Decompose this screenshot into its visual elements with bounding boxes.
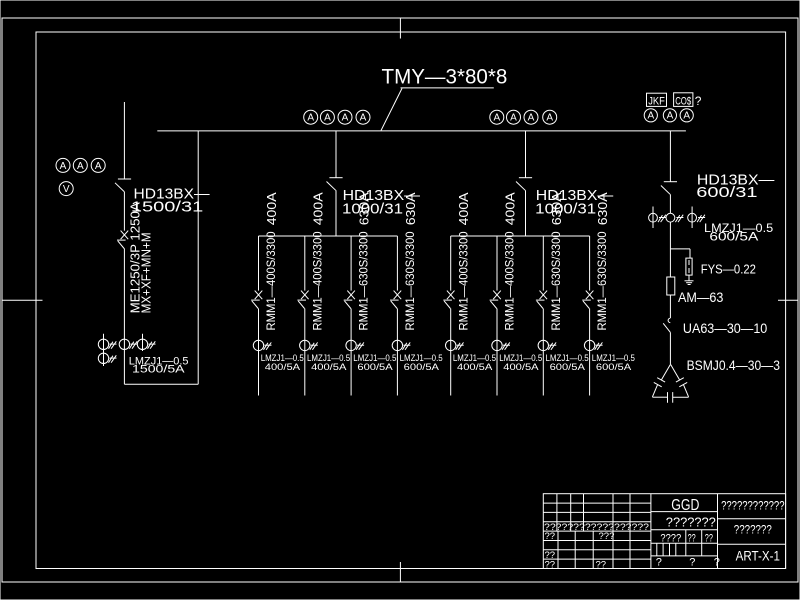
centre section rows xyxy=(651,511,718,513)
current transformer right b (on line) xyxy=(666,213,675,222)
isolator switch HD13BX-1500/31 xyxy=(118,178,131,180)
svg-text:?: ? xyxy=(695,94,702,108)
boxed glyph label 2 (COS) xyxy=(674,93,693,107)
svg-text:????????????: ???????????? xyxy=(721,501,784,513)
top centering mark xyxy=(399,18,401,39)
svg-text:400/5A: 400/5A xyxy=(457,362,493,373)
capacitor plates right side xyxy=(676,378,684,382)
arrester internal lead bottom xyxy=(688,268,690,273)
svg-text:RMM1—630S/3300: RMM1—630S/3300 xyxy=(357,231,371,330)
svg-text:A: A xyxy=(546,113,553,124)
wire between switch and breaker xyxy=(123,192,125,231)
wire busbar drop / cubicle box right edge xyxy=(197,131,199,384)
wire feeder 2 lower xyxy=(304,309,306,396)
capacitor bottom wire left xyxy=(652,396,667,398)
svg-text:BSMJ0.4—30—3: BSMJ0.4—30—3 xyxy=(687,358,780,373)
svg-text:A: A xyxy=(60,161,67,172)
svg-text:??: ?? xyxy=(596,560,607,571)
svg-text:?: ? xyxy=(689,557,695,569)
left centering mark xyxy=(2,299,43,301)
wire UA63 to capacitor xyxy=(669,332,671,364)
ammeter A at x=531.0 xyxy=(524,110,538,124)
wire feeder 7 upper xyxy=(542,236,544,291)
svg-text:???????: ??????? xyxy=(666,515,716,530)
current transformer LMZJ1 d xyxy=(98,353,108,363)
svg-text:1000/31: 1000/31 xyxy=(342,200,403,217)
svg-text:RMM1—400S/3300: RMM1—400S/3300 xyxy=(310,231,324,330)
svg-text:??????????????????: ?????????????????? xyxy=(544,522,649,533)
group 2 distribution wire xyxy=(451,235,590,237)
moulded case breaker RMM1 feeder 2 xyxy=(301,291,309,300)
capacitor bottom wire right xyxy=(673,396,689,398)
wire feeder 2 upper xyxy=(304,236,306,291)
CT secondary stub left xyxy=(103,334,105,366)
ammeter PA1 xyxy=(56,158,70,172)
moulded case breaker RMM1 feeder 8 xyxy=(586,291,594,300)
current transformer feeder 5 xyxy=(446,340,456,350)
CT stub right (right section) xyxy=(691,207,693,229)
wire branch horizontal xyxy=(670,248,690,250)
svg-text:????: ???? xyxy=(660,533,681,545)
CT stub left (right section) xyxy=(652,207,654,229)
title block divider 2 xyxy=(717,494,719,569)
left grid verticals upper xyxy=(556,494,558,531)
current transformer feeder 3 xyxy=(346,340,356,350)
moulded case breaker RMM1 feeder 3 xyxy=(347,291,355,300)
svg-text:600/5A: 600/5A xyxy=(404,362,440,373)
wire busbar drop group 2 head HD13BX-1000/31 xyxy=(525,131,527,178)
svg-text:600/5A: 600/5A xyxy=(550,362,586,373)
svg-text:UA63—30—10: UA63—30—10 xyxy=(683,321,767,336)
svg-text:630A: 630A xyxy=(358,192,372,226)
wire incomer lower / cubicle box left edge xyxy=(123,248,125,384)
svg-text:?: ? xyxy=(714,557,720,569)
svg-text:TMY—3*80*8: TMY—3*80*8 xyxy=(382,66,508,89)
current transformer feeder 2 xyxy=(300,340,310,350)
svg-text:V: V xyxy=(63,184,70,195)
svg-text:A: A xyxy=(307,113,314,124)
svg-text:RMM1—400S/3300: RMM1—400S/3300 xyxy=(503,231,517,330)
svg-text:400A: 400A xyxy=(504,192,518,226)
wire feeder 5 lower xyxy=(450,309,452,396)
right column rows xyxy=(718,518,786,520)
svg-text:A: A xyxy=(342,113,349,124)
circuit breaker ME1250/3P xyxy=(121,231,129,240)
ammeter A at x=669.9 xyxy=(663,109,676,122)
busbar TMY horizontal wire xyxy=(157,130,686,132)
current transformer feeder 6 xyxy=(492,340,502,350)
centre divider a xyxy=(685,530,687,556)
svg-text:A: A xyxy=(667,111,674,122)
svg-text:600/5A: 600/5A xyxy=(709,229,758,243)
svg-text:A: A xyxy=(510,113,517,124)
svg-text:??: ?? xyxy=(545,560,556,571)
wire feeder 6 lower xyxy=(496,309,498,396)
svg-text:RMM1—400S/3300: RMM1—400S/3300 xyxy=(456,231,470,330)
wire feeder 3 upper xyxy=(350,236,352,291)
ammeter A at x=549.7 xyxy=(543,110,557,124)
wire feeder 5 upper xyxy=(450,236,452,291)
wire branch vertical xyxy=(689,249,691,258)
boxed glyph label 1 (incoming) xyxy=(647,93,667,106)
svg-text:A: A xyxy=(528,113,535,124)
capacitor plates left side xyxy=(657,378,665,382)
svg-text:RMM1—630S/3300: RMM1—630S/3300 xyxy=(549,231,563,330)
svg-text:630A: 630A xyxy=(550,192,564,226)
current transformer right c xyxy=(688,213,697,222)
moulded case breaker RMM1 feeder 5 xyxy=(447,291,455,300)
current transformer feeder 8 xyxy=(584,340,594,350)
svg-text:??: ?? xyxy=(705,533,713,545)
wire feeder 4 lower xyxy=(396,309,398,396)
isolator switch group 1 head HD13BX-1000/31 xyxy=(329,177,342,179)
ammeter A at x=363.0 xyxy=(356,110,370,124)
svg-text:???????: ??????? xyxy=(734,524,772,536)
wire feeder 1 upper xyxy=(258,236,260,291)
svg-text:FYS—0.22: FYS—0.22 xyxy=(701,262,756,277)
cubicle box bottom edge xyxy=(124,383,198,385)
svg-text:RMM1—630S/3300: RMM1—630S/3300 xyxy=(403,231,417,330)
svg-text:A: A xyxy=(683,111,690,122)
ammeter PA3 xyxy=(91,158,105,172)
svg-text:A: A xyxy=(360,113,367,124)
isolator switch group 2 head HD13BX-1000/31 xyxy=(519,177,532,179)
current transformer feeder 1 xyxy=(253,340,263,350)
CT secondary stub right xyxy=(142,334,144,351)
ammeter A at x=345.0 xyxy=(338,110,352,124)
svg-text:400/5A: 400/5A xyxy=(311,362,347,373)
svg-text:A: A xyxy=(324,113,331,124)
capacitor plate bottom left xyxy=(667,392,669,403)
svg-text:???: ??? xyxy=(599,531,615,542)
svg-text:RMM1—400S/3300: RMM1—400S/3300 xyxy=(264,231,278,330)
svg-text:AM—63: AM—63 xyxy=(678,290,723,305)
svg-text:400A: 400A xyxy=(265,192,279,226)
isolator switch HD13BX-600/31 xyxy=(664,181,677,183)
fuse/arrester body FYS-0.22 xyxy=(686,258,692,275)
capacitor bank BSMJ0.4-30-3 (delta) xyxy=(661,364,670,380)
svg-text:400A: 400A xyxy=(311,192,325,226)
wire feeder 8 upper xyxy=(589,236,591,291)
current transformer LMZJ1 c xyxy=(137,339,147,349)
bottom centering mark xyxy=(399,562,401,582)
wire AM fuse to UA63 switch xyxy=(669,295,671,318)
ammeter A at x=650.8 xyxy=(644,109,657,122)
wire feeder 8 lower xyxy=(589,309,591,396)
wire busbar drop group 1 head HD13BX-1000/31 xyxy=(335,131,337,178)
busbar label leader xyxy=(381,88,402,130)
svg-text:ART-X-1: ART-X-1 xyxy=(736,549,780,564)
moulded case breaker RMM1 feeder 1 xyxy=(255,291,263,300)
right centering mark xyxy=(778,299,798,301)
svg-text:630A: 630A xyxy=(404,192,418,226)
svg-text:??: ?? xyxy=(688,533,696,545)
wire CT row to AM fuse xyxy=(669,222,671,277)
moulded case breaker RMM1 feeder 6 xyxy=(493,291,501,300)
wire feeder 7 lower xyxy=(542,309,544,396)
current transformer LMZJ1 b (on line) xyxy=(119,339,129,349)
svg-text:600/5A: 600/5A xyxy=(357,362,393,373)
arrester internal lead top xyxy=(688,260,690,265)
title block divider 1 xyxy=(650,494,652,569)
ammeter A at x=496.8 xyxy=(490,110,504,124)
svg-text:A: A xyxy=(77,161,84,172)
wire feeder 4 upper xyxy=(396,236,398,291)
svg-text:MX+XF+MN+M: MX+XF+MN+M xyxy=(140,232,154,313)
wire group 2 head HD13BX-1000/31 to distribution line xyxy=(525,190,527,236)
moulded case breaker RMM1 feeder 4 xyxy=(394,291,402,300)
svg-text:A: A xyxy=(95,161,102,172)
wire incomer drop upper xyxy=(123,102,125,179)
svg-text:CO$: CO$ xyxy=(675,95,691,107)
wire feeder 6 upper xyxy=(496,236,498,291)
ammeter A at x=310.7 xyxy=(304,110,318,124)
ammeter A at x=327.4 xyxy=(320,110,334,124)
svg-text:1500/5A: 1500/5A xyxy=(132,363,185,375)
capacitor plate bottom right xyxy=(672,392,674,403)
svg-text:400/5A: 400/5A xyxy=(503,362,539,373)
svg-text:400/5A: 400/5A xyxy=(265,362,301,373)
ammeter A at x=686.7 xyxy=(680,109,693,122)
voltmeter PV xyxy=(59,182,73,196)
contactor/switch UA63-30-10 xyxy=(668,318,670,322)
wire group 1 head HD13BX-1000/31 to distribution line xyxy=(335,190,337,236)
ammeter A at x=513.5 xyxy=(507,110,521,124)
current transformer feeder 4 xyxy=(392,340,402,350)
svg-text:RMM1—630S/3300: RMM1—630S/3300 xyxy=(595,231,609,330)
current transformer right a xyxy=(649,213,658,222)
left grid horizontals xyxy=(543,502,651,504)
fuse AM-63 body xyxy=(667,277,675,295)
ground symbol xyxy=(685,280,694,282)
svg-text:630A: 630A xyxy=(596,192,610,226)
title block outline xyxy=(543,494,785,569)
svg-text:GGD: GGD xyxy=(671,497,699,514)
wire feeder 3 lower xyxy=(350,309,352,396)
svg-text:1000/31: 1000/31 xyxy=(535,200,596,217)
left grid verticals lower xyxy=(557,531,559,568)
svg-text:A: A xyxy=(493,113,500,124)
svg-text:??: ?? xyxy=(545,531,556,542)
centre divider b xyxy=(701,530,703,556)
wire feeder 1 lower xyxy=(258,309,260,396)
centre row4 small cells xyxy=(656,543,658,556)
switch blade UA63 xyxy=(663,323,670,332)
group 1 distribution wire xyxy=(259,235,398,237)
svg-text:400A: 400A xyxy=(457,192,471,226)
svg-text:?: ? xyxy=(656,557,662,569)
moulded case breaker RMM1 feeder 7 xyxy=(540,291,548,300)
wire to CT row xyxy=(669,194,671,213)
ammeter PA2 xyxy=(73,158,87,172)
wire capacitor branch drop xyxy=(669,131,671,182)
current transformer LMZJ1 a xyxy=(98,339,108,349)
busbar label underline xyxy=(401,87,494,89)
current transformer feeder 7 xyxy=(538,340,548,350)
svg-text:A: A xyxy=(647,111,654,122)
svg-text:600/31: 600/31 xyxy=(696,184,757,201)
svg-text:600/5A: 600/5A xyxy=(596,362,632,373)
wire arrester to ground xyxy=(688,275,690,281)
svg-text:JKF: JKF xyxy=(648,95,665,107)
